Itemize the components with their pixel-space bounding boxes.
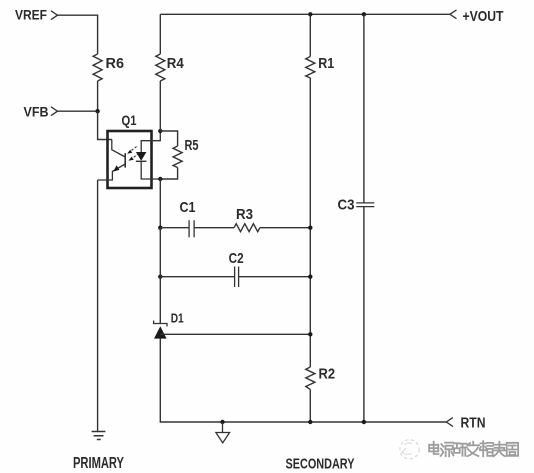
svg-text:R1: R1 <box>318 55 334 72</box>
capacitor C1 <box>189 220 194 237</box>
junction C1 row left <box>158 226 162 230</box>
wire C3 top lead <box>363 14 365 203</box>
svg-text:C3: C3 <box>338 197 355 214</box>
精 <box>480 441 493 456</box>
wire R4 bottom to node <box>159 81 161 131</box>
optocoupler Q1 package box <box>108 131 152 188</box>
ground secondary (open triangle) <box>216 433 230 443</box>
svg-text:RTN: RTN <box>461 414 486 431</box>
svg-text:VREF: VREF <box>15 7 47 23</box>
junction C2 row right <box>308 275 312 279</box>
junction top rail / R1 <box>308 12 312 16</box>
wire C3 bottom lead <box>363 207 365 422</box>
svg-text:R2: R2 <box>319 365 336 382</box>
transistor Q1 emitter arrowhead <box>113 165 119 171</box>
VREF input arrow <box>51 11 58 20</box>
svg-text:C1: C1 <box>180 199 196 216</box>
junction RTN rail / C3 <box>362 420 366 424</box>
resistor R2 <box>306 367 315 390</box>
wire D1 anode down to RTN rail corner <box>160 339 446 422</box>
wire R6 bottom to VFB node <box>97 81 99 111</box>
LED D of Q1 cathode lead <box>141 161 160 179</box>
light arrow 2 <box>132 153 139 158</box>
wire D1 row <box>160 333 310 335</box>
junction R5 bottom / LED cathode node <box>158 177 162 181</box>
junction C2 row left <box>158 275 162 279</box>
resistor R4 <box>156 54 165 81</box>
wire VFB to junction <box>58 110 98 112</box>
wire cathode node down to C1 row <box>159 179 161 228</box>
light arrow 1 <box>130 147 136 152</box>
junction top rail / C3 <box>362 12 366 16</box>
LED D of Q1 anode lead <box>141 131 160 152</box>
wire C2 node down to D1 <box>159 277 161 324</box>
研 <box>454 443 467 455</box>
junction C1 row right <box>308 226 312 230</box>
wire C1 to R3 <box>194 227 234 229</box>
junction VFB node <box>95 109 99 113</box>
VFB input arrow <box>51 107 58 116</box>
LED D of Q1 triangle <box>136 152 147 161</box>
diode D1 triangle <box>154 326 167 338</box>
svg-text:C2: C2 <box>229 250 244 267</box>
resistor R5 <box>173 146 182 168</box>
svg-text:Q1: Q1 <box>122 112 137 128</box>
wire R3 to R1 branch <box>260 227 310 229</box>
svg-text:PRIMARY: PRIMARY <box>73 455 124 472</box>
wire node to R5 top <box>160 131 177 146</box>
wire R2 bottom to RTN rail <box>309 390 311 423</box>
英 <box>493 442 505 457</box>
junction D1 row right <box>308 332 312 336</box>
圈 <box>507 443 518 456</box>
wire C1 row left <box>160 227 189 229</box>
resistor R3 <box>234 224 260 232</box>
svg-text:R3: R3 <box>236 206 253 223</box>
wire secondary ground stub <box>222 422 224 432</box>
wire top rail to +VOUT <box>160 13 450 15</box>
ground primary (earth bars) <box>92 432 106 440</box>
RTN output arrow <box>446 418 453 427</box>
svg-text:R6: R6 <box>106 55 125 72</box>
LED D of Q1 cathode bar <box>136 160 147 162</box>
wire R1 bottom down to R2 <box>309 78 311 367</box>
电 <box>429 442 438 454</box>
wire C2 row right <box>239 276 311 278</box>
resistor R6 <box>93 54 102 81</box>
wire Q1 emitter down to primary ground <box>97 180 99 432</box>
wire VREF to R6 top <box>58 15 98 54</box>
wire R1 top lead <box>309 14 311 56</box>
transistor Q1 phototransistor collector lead <box>112 140 125 158</box>
svg-text:SECONDARY: SECONDARY <box>286 456 355 473</box>
junction RTN rail / secondary ground <box>220 420 224 424</box>
wire R5 bottom to cathode node <box>160 168 177 180</box>
resistor R1 <box>306 57 315 79</box>
junction R4/R5/LED anode node <box>158 129 162 133</box>
transistor Q1 base bar <box>124 153 126 167</box>
wire VFB node down to Q1 collector pin <box>98 111 112 139</box>
svg-text:D1: D1 <box>171 310 184 325</box>
源 <box>441 443 454 457</box>
watermark faint logo circle <box>400 440 419 459</box>
wire C1 node down to C2 node <box>159 228 161 277</box>
capacitor C2 <box>235 267 239 288</box>
发 <box>467 442 479 456</box>
svg-text:R4: R4 <box>167 55 185 72</box>
capacitor C3 <box>356 203 374 207</box>
svg-text:R5: R5 <box>185 137 199 154</box>
+VOUT output arrow <box>450 10 457 19</box>
diode D1 cathode bar (zener) <box>154 321 167 327</box>
svg-text:VFB: VFB <box>24 103 49 119</box>
junction RTN rail / R2 <box>308 420 312 424</box>
transistor Q1 emitter lead <box>98 164 126 180</box>
svg-text:+VOUT: +VOUT <box>463 8 504 25</box>
wire C2 row left <box>160 276 234 278</box>
watermark text 电源研发精英圈 <box>429 441 518 456</box>
wire rail corner down to R4 <box>159 14 161 54</box>
